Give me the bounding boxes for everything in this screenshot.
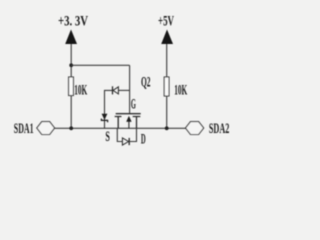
svg-text:D: D xyxy=(141,131,146,147)
wire R2 to SDA2 net xyxy=(166,96,168,128)
svg-text:10K: 10K xyxy=(74,83,87,99)
resistor R2 body xyxy=(164,77,169,96)
svg-text:G: G xyxy=(131,97,136,113)
wire gate branch horizontal xyxy=(71,64,129,66)
body diode loop wire left xyxy=(117,128,122,141)
transistor Q2 substrate arrow xyxy=(128,121,130,129)
power symbol +3.3V arrow xyxy=(65,30,77,45)
body diode loop wire right xyxy=(129,128,136,141)
svg-text:SDA1: SDA1 xyxy=(14,121,34,137)
svg-text:10K: 10K xyxy=(174,83,187,99)
svg-text:+5V: +5V xyxy=(158,14,174,30)
transistor Q2 drain contact xyxy=(133,117,141,129)
wire clamp branch to diode xyxy=(105,90,113,128)
transistor Q2 source contact xyxy=(115,117,122,129)
wire diode D1 to gate line xyxy=(118,89,129,91)
svg-text:Q2: Q2 xyxy=(141,75,151,91)
body diode triangle xyxy=(122,138,128,145)
power symbol +5V arrow xyxy=(161,30,173,45)
svg-text:S: S xyxy=(105,129,110,145)
svg-text:+3. 3V: +3. 3V xyxy=(58,14,88,30)
body diode cathode bar xyxy=(128,138,130,145)
zener diode Z1 triangle xyxy=(102,114,108,120)
resistor R1 body xyxy=(69,77,74,96)
node junction on +3.3V line at gate branch xyxy=(69,63,73,67)
wire +5V rail down xyxy=(166,44,168,77)
transistor Q2 gate bar xyxy=(116,113,141,115)
node junction SDA1/+3.3V pull-up xyxy=(69,126,73,130)
node junction SDA2/+5V pull-up xyxy=(165,126,169,130)
port SDA2 hexagon xyxy=(186,122,204,135)
svg-text:SDA2: SDA2 xyxy=(209,121,229,137)
net SDA1 main wire xyxy=(55,127,186,129)
diode D1 triangle xyxy=(113,87,118,94)
wire gate branch vertical to gate xyxy=(129,65,131,113)
zener diode Z1 cathode bar xyxy=(101,119,107,123)
wire R1 to SDA1 net xyxy=(70,96,72,129)
diode D1 cathode bar xyxy=(112,86,114,94)
wire +3.3V rail down xyxy=(70,44,72,77)
port SDA1 hexagon xyxy=(37,122,55,135)
